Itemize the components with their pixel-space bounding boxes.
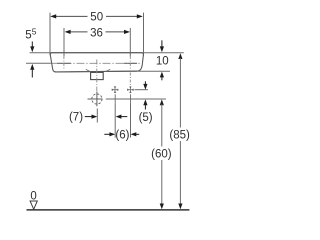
dimension 10 up arrow	[160, 72, 164, 81]
bowl underside slant right	[106, 69, 111, 71]
supply line below left symbol	[114, 94, 116, 104]
svg-text:(60): (60)	[151, 148, 172, 160]
extension line right of 50	[143, 13, 145, 56]
svg-text:10: 10	[156, 56, 169, 68]
dimension (5) up arrow	[143, 99, 147, 109]
right mounting hole cross centerline vertical	[129, 56, 131, 70]
dimension 50 line	[52, 15, 141, 17]
basin bottom front edge emphasis	[55, 70, 138, 73]
dimension 50 arrowheads	[50, 14, 143, 18]
water supply symbol right	[127, 86, 134, 93]
arrow pointing left to supply left line	[116, 115, 128, 119]
dimension (7) arrow to drain centerline	[85, 115, 98, 119]
supply centerline extension right	[135, 89, 149, 91]
extension line supply right vertical	[130, 105, 132, 138]
dimension 5.5 up arrow	[30, 64, 34, 78]
dimension 5.5 down arrow	[30, 42, 34, 53]
svg-text:(85): (85)	[169, 129, 190, 141]
bottom edge extension line right	[138, 70, 170, 72]
datum triangle	[30, 201, 37, 209]
dimension (6) right arrow	[131, 132, 140, 136]
svg-text:(5): (5)	[139, 112, 153, 124]
dimension 36 arrowheads	[65, 30, 130, 34]
left mounting hole cross arm	[57, 62, 70, 64]
extension line drain centerline below	[96, 109, 98, 123]
water supply symbol left	[112, 86, 119, 93]
supply line below right symbol	[130, 94, 132, 104]
dimension 10 down arrow	[160, 40, 164, 52]
dimension (60) line with arrows	[160, 99, 164, 209]
extension line supply left vertical	[114, 105, 116, 138]
mounting hole centerline (y=63.3)	[26, 62, 51, 64]
trap outlet horizontal centerline	[88, 98, 103, 100]
washbasin outline	[50, 53, 143, 72]
extension line left of 36	[63, 28, 65, 57]
extension line right of 36	[129, 28, 131, 57]
extension line left of 50	[49, 13, 51, 56]
right mounting hole cross arm	[124, 62, 137, 64]
bowl underside slant left	[86, 69, 91, 71]
dimension (85) line with arrows	[178, 53, 182, 209]
trap outlet circle	[92, 94, 102, 104]
svg-text:(7): (7)	[69, 111, 83, 123]
dimension 36 line	[66, 31, 129, 33]
left mounting hole cross centerline vertical	[63, 56, 65, 70]
dimension (5) down arrow	[143, 81, 147, 89]
dash-dot link right mounting hole to supply	[129, 73, 131, 87]
svg-text:36: 36	[90, 27, 103, 39]
svg-text:(6): (6)	[115, 129, 129, 141]
floor line	[27, 209, 190, 211]
top rim extension line (y=52.7 across)	[30, 52, 184, 54]
trap outlet vertical centerline solid part	[96, 92, 98, 107]
dimension (6) left arrow	[104, 132, 115, 136]
svg-text:50: 50	[90, 11, 103, 23]
drain tailpiece rectangle	[91, 72, 104, 79]
drain vertical centerline	[96, 60, 98, 92]
